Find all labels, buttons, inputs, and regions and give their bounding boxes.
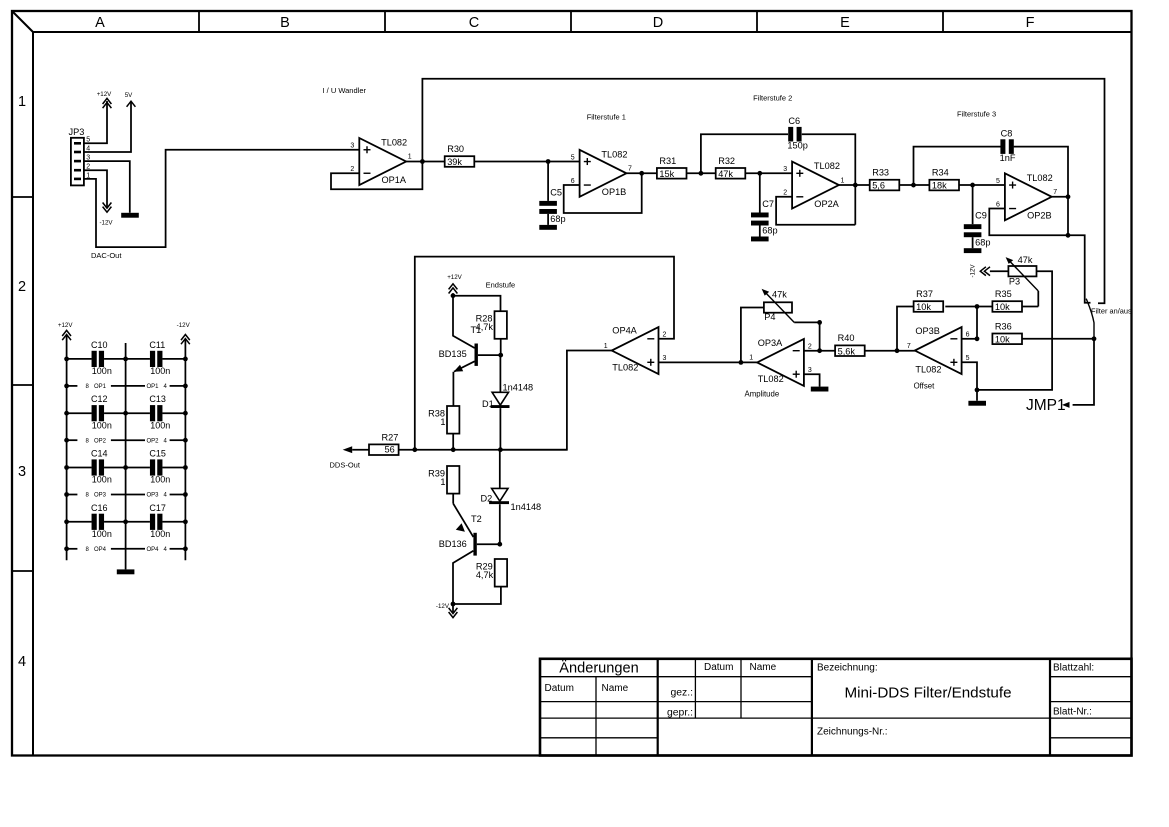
wire T1 base node to D1 [499, 355, 501, 392]
wire OP2B output to feedback node [1052, 196, 1068, 198]
svg-text:P4: P4 [764, 312, 775, 322]
junction JMP1 common node [1092, 336, 1097, 341]
wire -12V to P3 left terminal [990, 270, 1009, 272]
capacitor C10 100n [91, 340, 112, 376]
svg-text:Datum: Datum [545, 683, 574, 694]
svg-text:6: 6 [966, 332, 970, 339]
svg-text:47k: 47k [1018, 255, 1033, 265]
op-amp OP1B (TL082) [571, 149, 632, 197]
wire OP2A output to R33 [839, 184, 870, 186]
junction P4 wiper corner [817, 320, 822, 325]
op-amp OP2A (TL082) [783, 161, 844, 209]
ground (JP3 pin3) [121, 213, 139, 218]
junction rail/R38/R39 node [451, 447, 456, 452]
wire cap row C12/C13 [67, 412, 186, 414]
svg-text:5: 5 [966, 355, 970, 362]
section label I/U Wandler [323, 86, 367, 95]
junction OP1A output node [420, 159, 425, 164]
wire P4 wiper to OP3A -input [794, 322, 819, 350]
power -12V (cap bank rail) [177, 322, 191, 344]
svg-text:R30: R30 [447, 144, 464, 154]
svg-text:3: 3 [18, 464, 26, 480]
wire OP3B +input to ground [962, 362, 977, 401]
svg-text:100n: 100n [92, 420, 112, 430]
wire OP4A feedback (-input to output rail) [415, 257, 674, 450]
svg-text:R35: R35 [995, 289, 1012, 299]
section label Filterstufe 2 [753, 93, 792, 102]
op-amp OP4A (TL082) [604, 325, 667, 374]
svg-text:R31: R31 [659, 156, 676, 166]
svg-text:OP1B: OP1B [602, 187, 627, 197]
junction R33/R34/C8 node [911, 183, 916, 188]
power -12V (JP3) [99, 203, 113, 227]
svg-text:1n4148: 1n4148 [503, 382, 534, 392]
svg-text:5: 5 [571, 154, 575, 161]
wire ground middle rail [125, 343, 127, 569]
svg-text:P3: P3 [1009, 277, 1020, 287]
svg-text:15k: 15k [659, 169, 674, 179]
junction rail/feedback node [412, 447, 417, 452]
op-amp OP3A (TL082, Amplitude) [745, 338, 812, 399]
svg-text:+12V: +12V [58, 322, 73, 329]
wire supply pins OP3 (pin 8 / pin 4) [67, 493, 186, 499]
resistor R37 10k [914, 289, 944, 312]
wire R32 to OP2A +input [745, 172, 792, 174]
svg-text:1: 1 [408, 154, 412, 161]
svg-text:BD136: BD136 [439, 539, 467, 549]
wire cap row C16/C17 [67, 521, 186, 523]
power +12V (cap bank rail) [58, 322, 73, 340]
svg-text:Endstufe: Endstufe [486, 281, 516, 290]
junction OP2B feedback/output takeoff node [1066, 233, 1071, 238]
wire DAC-Out: JP3 pin1 to OP1A +input [84, 150, 359, 247]
ground (OP3B +input) [968, 401, 986, 406]
svg-text:100n: 100n [92, 475, 112, 485]
resistor R31 15k [657, 156, 687, 179]
svg-text:OP4: OP4 [94, 547, 107, 553]
svg-text:3: 3 [808, 367, 812, 374]
wire filter bypass line (OP1A output to JMP1 area) [422, 79, 1104, 304]
svg-text:D2: D2 [481, 494, 493, 504]
junction R32/C7 node [757, 171, 762, 176]
wire R40 to OP3B output [865, 350, 897, 352]
svg-text:C5: C5 [550, 187, 562, 197]
wire -12V right rail [184, 339, 186, 560]
wire summing node vertical (R35/R36 left) [976, 307, 978, 339]
svg-text:2: 2 [783, 190, 787, 197]
wire OP3A -input to R40 [804, 350, 835, 352]
wire OP1B output to R31 [626, 172, 657, 174]
node JMP1 label and arrow [1026, 397, 1070, 414]
svg-text:D: D [653, 15, 663, 31]
svg-text:1: 1 [841, 177, 845, 184]
label T1 [471, 325, 482, 335]
wire JP3 pin2 to -12V [84, 170, 107, 207]
svg-text:F: F [1026, 15, 1035, 31]
wire R33 to R34 [899, 184, 929, 186]
potentiometer P4 47k [762, 289, 795, 323]
wire D2 to T2 base node [499, 504, 501, 544]
junction OP1B output node [639, 171, 644, 176]
svg-text:DAC-Out: DAC-Out [91, 251, 122, 260]
wire cap row C10/C11 [67, 358, 186, 360]
wire JP3 pin5 to +12V [84, 101, 107, 143]
svg-text:TL082: TL082 [758, 374, 784, 384]
svg-text:+12V: +12V [447, 274, 462, 281]
wire R31 to R32 [687, 172, 716, 174]
svg-text:Filterstufe 3: Filterstufe 3 [957, 109, 996, 118]
capacitor C6 150p [787, 116, 807, 151]
junction supply pin row OP1 [64, 384, 188, 389]
svg-text:100n: 100n [150, 420, 170, 430]
svg-text:2: 2 [808, 344, 812, 351]
svg-text:TL082: TL082 [915, 364, 941, 374]
svg-text:C6: C6 [788, 116, 800, 126]
wire P4 left terminal to OP3A output [741, 308, 764, 363]
wire supply pins OP4 (pin 8 / pin 4) [67, 547, 186, 553]
op-amp OP3B (TL082, Offset) [907, 326, 970, 391]
svg-text:OP3B: OP3B [915, 326, 940, 336]
svg-text:BD135: BD135 [439, 349, 467, 359]
junction OP3A output node [739, 360, 744, 365]
wire OP3B -input to summing node [962, 338, 977, 340]
junction supply pin row OP2 [64, 438, 188, 443]
wire JP3 pin4 to 5V [84, 102, 131, 152]
svg-text:C8: C8 [1001, 128, 1013, 138]
svg-text:C11: C11 [149, 340, 165, 350]
svg-text:Amplitude: Amplitude [745, 389, 780, 398]
wire R38 to output rail [452, 434, 454, 450]
junction OP3B+/P3/ground node [975, 388, 980, 393]
svg-text:OP2: OP2 [147, 438, 160, 444]
svg-text:OP4: OP4 [147, 547, 160, 553]
svg-text:JP3: JP3 [69, 127, 85, 137]
svg-text:68p: 68p [975, 237, 990, 247]
resistor R40 5,6k [835, 333, 865, 356]
svg-text:C15: C15 [149, 449, 166, 459]
svg-text:OP1: OP1 [147, 384, 160, 390]
resistor R33 5,6 [870, 168, 900, 191]
junction OP3A-/P4/R40 node [817, 348, 822, 353]
diode D2 1n4148 [481, 450, 542, 512]
wire +12V to T1 collector and R28 [453, 293, 501, 311]
svg-text:3: 3 [783, 166, 787, 173]
svg-text:1n4148: 1n4148 [511, 502, 542, 512]
svg-text:OP3A: OP3A [758, 338, 783, 348]
wire R35 right to P3 wiper [1022, 306, 1038, 308]
svg-text:B: B [280, 15, 290, 31]
svg-text:OP2: OP2 [94, 438, 107, 444]
wire OP4A output to output rail [500, 351, 611, 450]
wire R34 to OP2B +input [959, 184, 1005, 186]
svg-text:10k: 10k [995, 302, 1010, 312]
svg-text:TL082: TL082 [1027, 173, 1053, 183]
junction R40/R37/OP3B node [895, 348, 900, 353]
capacitor C8 1nF [1000, 128, 1016, 163]
junction cap row C12 rails [64, 411, 188, 416]
svg-text:C17: C17 [149, 503, 166, 513]
svg-text:47k: 47k [718, 169, 733, 179]
svg-text:1: 1 [440, 417, 445, 427]
wire R27 to DDS-Out arrow [352, 449, 369, 451]
svg-text:47k: 47k [772, 289, 787, 299]
svg-text:R37: R37 [916, 289, 933, 299]
wire supply pins OP1 (pin 8 / pin 4) [67, 384, 186, 390]
junction T1 base / R28 / D1 node [498, 353, 503, 358]
svg-text:100n: 100n [92, 366, 112, 376]
svg-text:1: 1 [18, 94, 26, 110]
wire D1 to output rail [499, 408, 501, 450]
op-amp OP2B (TL082) [996, 173, 1057, 221]
junction rail/D1/D2 node [498, 447, 503, 452]
svg-text:2: 2 [350, 166, 354, 173]
transistor T1 BD135 [439, 296, 501, 406]
wire C6 feedback branch (node to C6 to OP2A output) [701, 134, 855, 225]
capacitor C17 100n [149, 503, 170, 539]
resistor R34 18k [929, 168, 959, 191]
diode D1 1n4148 [482, 382, 533, 409]
title block [540, 659, 1132, 756]
svg-text:100n: 100n [150, 366, 170, 376]
capacitor C5 68p to ground [539, 162, 565, 230]
svg-text:7: 7 [1053, 189, 1057, 196]
svg-text:C10: C10 [91, 340, 108, 350]
svg-text:7: 7 [628, 166, 632, 173]
svg-text:5: 5 [996, 178, 1000, 185]
svg-text:Filterstufe 2: Filterstufe 2 [753, 93, 792, 102]
junction supply pin row OP3 [64, 492, 188, 497]
wire P3 right terminal to ground rail [977, 271, 1052, 390]
capacitor C14 100n [91, 449, 112, 485]
junction OP2A output node [853, 183, 858, 188]
svg-text:6: 6 [996, 201, 1000, 208]
svg-text:C16: C16 [91, 503, 108, 513]
svg-text:5,6k: 5,6k [838, 346, 856, 356]
svg-text:OP1: OP1 [94, 384, 107, 390]
svg-text:68p: 68p [762, 226, 777, 236]
svg-text:2: 2 [663, 332, 667, 339]
svg-text:JMP1: JMP1 [1026, 397, 1066, 414]
svg-text:Änderungen: Änderungen [559, 660, 639, 677]
svg-text:56: 56 [385, 444, 395, 454]
svg-text:C12: C12 [91, 394, 108, 404]
svg-text:Offset: Offset [914, 382, 935, 391]
wire OP3B output to R40 [897, 350, 915, 352]
wire R37 left to OP3B output node [897, 307, 914, 351]
svg-text:I / U Wandler: I / U Wandler [323, 86, 367, 95]
svg-text:OP2B: OP2B [1027, 211, 1052, 221]
wire output rail (R27 to OP4A output) [399, 449, 567, 451]
wire JMP1 common to JMP1 arrow [1073, 339, 1094, 405]
svg-text:-12V: -12V [99, 219, 113, 226]
wire supply pins OP2 (pin 8 / pin 4) [67, 438, 186, 444]
capacitor C15 100n [149, 449, 170, 485]
wire C8 feedback branch (node to C8 to OP2B output) [914, 147, 1069, 236]
junction R36/OP3B- node [975, 336, 980, 341]
svg-text:R40: R40 [838, 333, 855, 343]
svg-text:D1: D1 [482, 399, 494, 409]
wire +12V left rail [66, 335, 68, 560]
junction +12V node [451, 293, 456, 298]
junction R31/R32/C6 node [699, 171, 704, 176]
svg-text:7: 7 [907, 343, 911, 350]
svg-text:OP1A: OP1A [382, 175, 407, 185]
wire OP1A output to R30 [406, 161, 445, 163]
connector JP3 [69, 127, 91, 185]
svg-text:5V: 5V [125, 92, 133, 99]
svg-text:1: 1 [604, 343, 608, 350]
svg-text:-12V: -12V [177, 322, 191, 329]
wire cap row C14/C15 [67, 467, 186, 469]
svg-text:Bezeichnung:: Bezeichnung: [817, 663, 878, 674]
wire R28 bottom to T1 base node [500, 339, 502, 355]
svg-text:OP2A: OP2A [814, 199, 839, 209]
transistor T2 BD136 [439, 504, 500, 604]
svg-text:Blattzahl:: Blattzahl: [1053, 663, 1094, 674]
wire OP3A output to OP4A +input [659, 361, 758, 363]
svg-text:gepr.:: gepr.: [667, 708, 693, 719]
svg-text:Name: Name [750, 662, 777, 673]
svg-text:-12V: -12V [970, 264, 977, 278]
svg-text:4,7k: 4,7k [476, 570, 494, 580]
ground (cap bank) [117, 569, 135, 574]
resistor R28 4,7k [476, 311, 507, 339]
junction supply pin row OP4 [64, 546, 188, 551]
svg-text:Mini-DDS Filter/Endstufe: Mini-DDS Filter/Endstufe [844, 685, 1011, 702]
resistor R39 1 [428, 466, 459, 494]
wire R30 to OP1B +input [474, 161, 579, 163]
power -12V (P3) [970, 264, 991, 278]
svg-text:TL082: TL082 [814, 161, 840, 171]
junction C5 node [546, 159, 551, 164]
svg-text:R27: R27 [382, 432, 399, 442]
svg-text:2: 2 [18, 279, 26, 295]
resistor R32 47k [716, 156, 746, 179]
svg-text:DDS-Out: DDS-Out [330, 461, 361, 470]
junction OP2B output node [1066, 194, 1071, 199]
svg-text:TL082: TL082 [601, 149, 627, 159]
svg-text:+12V: +12V [97, 91, 112, 98]
resistor R30 39k [445, 144, 475, 167]
svg-text:5,6: 5,6 [872, 181, 885, 191]
power -12V (Endstufe) [436, 603, 457, 618]
svg-text:TL082: TL082 [381, 138, 407, 148]
junction T2 collector / -12V node [451, 602, 456, 607]
capacitor C7 68p to ground [751, 173, 778, 241]
svg-text:100n: 100n [92, 529, 112, 539]
wire OP1B feedback (output to -input) [564, 173, 642, 213]
svg-text:1: 1 [440, 477, 445, 487]
capacitor C13 100n [149, 394, 170, 430]
svg-text:Zeichnungs-Nr.:: Zeichnungs-Nr.: [817, 726, 888, 737]
junction cap row C10 rails [64, 357, 188, 362]
wire R36 right to JMP1 common [1022, 338, 1094, 340]
wire R39 to T2 emitter [452, 494, 454, 504]
section label Filterstufe 3 [957, 109, 996, 118]
svg-text:R36: R36 [995, 321, 1012, 331]
wire R37 right to R35 left [945, 306, 992, 308]
capacitor C11 100n [149, 340, 170, 376]
potentiometer P3 47k [1006, 255, 1039, 291]
resistor R38 1 [428, 406, 459, 434]
resistor R35 10k [992, 289, 1022, 312]
svg-text:10k: 10k [916, 302, 931, 312]
node DDS-Out arrow and label [330, 446, 361, 469]
wire OP1A feedback (output to -input) [331, 162, 422, 190]
wire JP3 pin3 to ground [84, 161, 130, 213]
svg-text:Datum: Datum [704, 662, 733, 673]
svg-text:10k: 10k [995, 334, 1010, 344]
junction cap row C14 rails [64, 465, 188, 470]
svg-text:1: 1 [749, 355, 753, 362]
svg-text:OP3: OP3 [147, 493, 160, 499]
svg-text:39k: 39k [447, 157, 462, 167]
node JMP1 jumper blade (Filter an/aus switch) [1086, 299, 1132, 339]
wire OP2A feedback (-input to output) [776, 197, 855, 225]
power +12V (Endstufe) [447, 274, 462, 294]
svg-text:R33: R33 [872, 168, 889, 178]
wire P3 wiper to R35 [1037, 291, 1039, 307]
svg-text:3: 3 [350, 143, 354, 150]
svg-text:C7: C7 [762, 199, 774, 209]
svg-text:3: 3 [663, 355, 667, 362]
svg-text:C: C [469, 15, 479, 31]
junction cap row C16 rails [64, 519, 188, 524]
junction R37/R35 node [975, 304, 980, 309]
capacitor C16 100n [91, 503, 112, 539]
svg-text:OP3: OP3 [94, 493, 107, 499]
svg-text:R34: R34 [932, 168, 949, 178]
svg-text:R32: R32 [718, 156, 735, 166]
svg-text:T2: T2 [471, 514, 482, 524]
svg-text:150p: 150p [787, 141, 807, 151]
svg-text:1nF: 1nF [1000, 153, 1016, 163]
wire OP2B feedback (-input to bottom rail) [989, 209, 1068, 236]
svg-text:100n: 100n [150, 475, 170, 485]
svg-text:TL082: TL082 [612, 362, 638, 372]
svg-text:C13: C13 [149, 394, 166, 404]
svg-text:C14: C14 [91, 449, 108, 459]
svg-text:Filter an/aus: Filter an/aus [1091, 306, 1132, 315]
svg-text:T1: T1 [471, 325, 482, 335]
junction R34/C9 node [970, 183, 975, 188]
wire OP3A +input to ground [804, 374, 820, 386]
op-amp OP1A (TL082) [350, 138, 411, 186]
ground (OP3A +input) [811, 387, 829, 392]
svg-text:6: 6 [571, 178, 575, 185]
resistor R27 56 [369, 432, 399, 455]
svg-text:4: 4 [18, 654, 26, 670]
capacitor C12 100n [91, 394, 112, 430]
section label Filterstufe 1 [587, 112, 626, 121]
power +12V (JP3) [97, 91, 112, 108]
wire OP2B output to filter contact of JMP1 [1068, 235, 1091, 302]
power 5V (JP3) [125, 92, 136, 107]
svg-text:C9: C9 [975, 211, 987, 221]
svg-text:gez.:: gez.: [670, 687, 693, 698]
resistor R29 4,7k [476, 559, 507, 587]
svg-text:-12V: -12V [436, 603, 450, 610]
svg-text:Filterstufe 1: Filterstufe 1 [587, 112, 626, 121]
node DAC-Out label [91, 251, 122, 260]
svg-text:A: A [95, 15, 105, 31]
capacitor C9 68p to ground [964, 185, 991, 253]
svg-text:100n: 100n [150, 529, 170, 539]
section label Endstufe [486, 281, 516, 290]
resistor R36 10k [992, 321, 1022, 344]
svg-text:E: E [840, 15, 850, 31]
svg-text:OP4A: OP4A [612, 325, 637, 335]
